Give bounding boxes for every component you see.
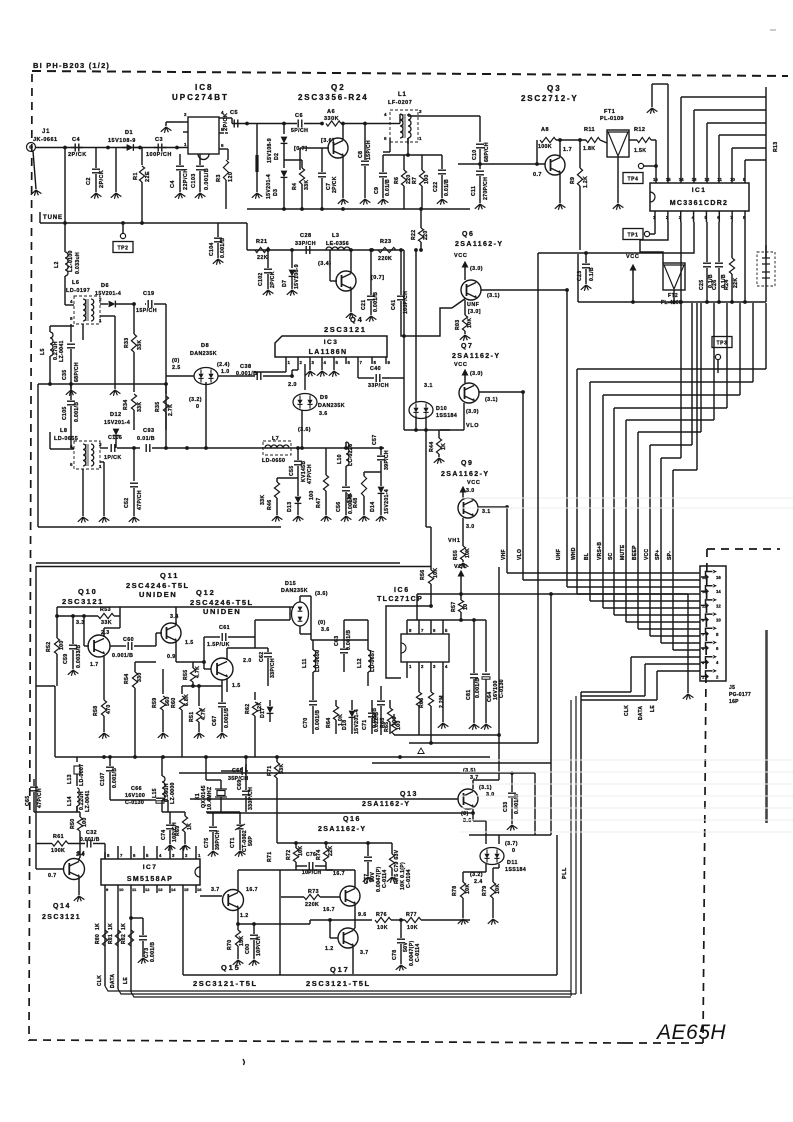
svg-text:C59: C59 [63, 654, 69, 664]
svg-text:2SC3121-T5L: 2SC3121-T5L [193, 979, 258, 988]
svg-text:D11: D11 [507, 860, 518, 866]
svg-text:[3.0]: [3.0] [468, 309, 481, 315]
svg-text:J1: J1 [42, 129, 50, 135]
wire Q16 output row [330, 919, 372, 921]
svg-text:R6: R6 [394, 177, 400, 184]
svg-text:(3.6): (3.6) [315, 591, 328, 597]
svg-text:D9: D9 [320, 395, 328, 401]
svg-text:R23: R23 [380, 239, 392, 245]
inductor L15 0.56uH [161, 757, 163, 776]
svg-text:C61: C61 [219, 625, 230, 631]
svg-text:R69: R69 [175, 826, 181, 836]
svg-text:D14: D14 [370, 502, 376, 512]
svg-text:4.7K: 4.7K [195, 666, 201, 678]
svg-text:Q6: Q6 [462, 231, 475, 238]
svg-text:R57: R57 [451, 602, 457, 612]
svg-text:33P/CH: 33P/CH [368, 383, 389, 389]
wire top corner ground [651, 84, 653, 107]
svg-text:TP3: TP3 [717, 340, 728, 346]
svg-text:220: 220 [423, 230, 429, 240]
wire IC6 box outline [386, 606, 431, 678]
svg-text:Q16: Q16 [343, 816, 361, 823]
svg-text:10P/CH: 10P/CH [302, 870, 321, 876]
svg-text:14: 14 [679, 177, 684, 182]
op-amp IC8 UPC274BT [188, 117, 219, 154]
svg-text:VLO: VLO [466, 423, 479, 429]
svg-text:0.7: 0.7 [48, 873, 57, 879]
capacitor C10 68P/CH [476, 143, 484, 145]
resistor R82 1K [128, 930, 133, 946]
svg-text:0.001/B: 0.001/B [80, 837, 100, 843]
svg-text:0.001/B: 0.001/B [373, 292, 379, 312]
svg-text:Q14: Q14 [53, 903, 71, 910]
svg-text:6.8K: 6.8K [184, 694, 190, 706]
resistor R62 12K [254, 692, 256, 700]
wire top L11 L12 [311, 639, 368, 641]
filter FT2 FL-4200 [663, 263, 685, 290]
svg-text:PLL: PLL [562, 867, 568, 879]
resistor R33 33K [133, 304, 135, 334]
svg-text:1.7: 1.7 [90, 662, 99, 668]
svg-text:15V108-9: 15V108-9 [267, 138, 273, 163]
svg-text:100: 100 [309, 490, 315, 500]
svg-text:Q7: Q7 [461, 343, 474, 350]
svg-text:330K: 330K [324, 116, 339, 122]
capacitor C81 0.001/B [473, 620, 475, 673]
svg-text:33K: 33K [101, 620, 112, 626]
svg-text:39P/CH: 39P/CH [215, 830, 221, 850]
svg-text:VRS+B: VRS+B [597, 542, 603, 560]
wire bus WHD [765, 303, 767, 369]
svg-text:10: 10 [716, 618, 721, 623]
resistor R50 100 [79, 812, 81, 817]
IC U3 IC3 LA1186N [275, 336, 387, 357]
wire IC1 pin15 top [667, 84, 669, 183]
svg-text:3.6: 3.6 [321, 627, 330, 633]
resistor R55 10K stub [462, 535, 464, 546]
svg-text:10K: 10K [465, 884, 471, 894]
resistor R9 1.2K [579, 140, 581, 168]
svg-text:BL: BL [584, 553, 590, 560]
capacitor C107 0.001/B [109, 757, 111, 766]
svg-text:0.001/B: 0.001/B [220, 238, 226, 258]
svg-text:2SA1162-Y: 2SA1162-Y [452, 353, 500, 360]
wire D10 verticals [415, 250, 417, 402]
svg-text:Q2: Q2 [331, 83, 346, 92]
svg-text:C5: C5 [230, 110, 238, 116]
svg-text:2.7K: 2.7K [168, 404, 174, 416]
svg-text:C57: C57 [372, 435, 378, 445]
wire L1 secondary row [383, 154, 442, 156]
wire Q3 base [458, 163, 545, 165]
svg-text:3.6: 3.6 [463, 818, 472, 824]
svg-text:JK-0661: JK-0661 [33, 137, 58, 143]
svg-text:1.5P/UK: 1.5P/UK [207, 642, 230, 648]
ground IC3 pin3 [309, 364, 311, 370]
svg-text:LA1186N: LA1186N [309, 349, 348, 356]
svg-text:C55: C55 [289, 466, 295, 476]
wire Q12 base node [175, 655, 177, 662]
svg-text:0.033uH: 0.033uH [75, 252, 81, 274]
svg-text:(3.0): (3.0) [466, 409, 479, 415]
resistor R65b 100 [393, 714, 395, 720]
svg-text:IC8: IC8 [195, 83, 213, 92]
resistor R6 220 [403, 155, 405, 170]
capacitor C3 [157, 144, 159, 152]
resistor R3 120 [225, 132, 228, 134]
dual diode D9 DAN235K [304, 364, 306, 390]
marker triangle [418, 748, 424, 754]
svg-text:1K: 1K [187, 823, 193, 830]
diode D18 15V201-4 [351, 700, 353, 710]
capacitor C105 0.001/B [70, 395, 72, 400]
svg-text:IC6: IC6 [394, 587, 410, 594]
svg-text:1K: 1K [121, 923, 127, 930]
svg-text:2SA1162-Y: 2SA1162-Y [455, 241, 503, 248]
wire bus VRS+B [739, 303, 741, 395]
capacitor C35 68P/CH [70, 324, 72, 342]
capacitor C103 0.001/B [199, 154, 201, 165]
svg-text:LZ-0100: LZ-0100 [68, 250, 74, 272]
wire D10 to IC6 [425, 430, 427, 527]
svg-text:LZ-0041: LZ-0041 [59, 340, 65, 362]
svg-text:2P/CK: 2P/CK [332, 176, 338, 193]
svg-text:470: 470 [106, 704, 112, 714]
svg-text:FT2: FT2 [668, 293, 678, 299]
svg-text:LD-0650: LD-0650 [262, 458, 285, 464]
svg-text:10: 10 [463, 604, 469, 610]
IC U6 IC6 TLC271CP [401, 634, 449, 662]
wire L1 input [390, 123, 400, 125]
svg-text:330: 330 [137, 672, 143, 682]
svg-text:0.7: 0.7 [533, 172, 542, 178]
svg-text:(0): (0) [172, 358, 180, 364]
scan streaks [460, 497, 793, 499]
svg-text:15: 15 [184, 887, 189, 892]
wire IC8 pin7 ground [166, 121, 183, 123]
testpoint TP3 [712, 337, 732, 348]
svg-text:13: 13 [702, 589, 707, 594]
svg-text:3.1: 3.1 [482, 509, 491, 515]
svg-text:D10: D10 [436, 406, 447, 412]
stray mark bottom center [243, 1059, 245, 1065]
capacitor C67 0.001/B [221, 680, 223, 702]
wire nested row1 [409, 742, 538, 744]
svg-text:R3: R3 [216, 174, 222, 182]
svg-text:16.7: 16.7 [323, 907, 335, 913]
resonator X2 [757, 252, 775, 286]
wire CLK to J5 [581, 691, 631, 693]
svg-text:270P/CH: 270P/CH [483, 177, 489, 200]
svg-text:220K: 220K [378, 256, 392, 262]
diode D1 15V108-9 [122, 147, 127, 149]
trimmer CT1 CT-0002 [239, 812, 241, 824]
wire C32 to IC7 pin8 [104, 844, 106, 859]
capacitor C69 330P/CH [245, 764, 247, 790]
svg-text:22K: 22K [328, 846, 334, 856]
svg-text:D17: D17 [260, 708, 266, 718]
svg-text:TP2: TP2 [118, 245, 129, 251]
svg-text:SC: SC [608, 552, 614, 560]
svg-text:BI PH-B203 (1/2): BI PH-B203 (1/2) [33, 61, 110, 70]
diode D14 15V201-4 [378, 487, 385, 494]
svg-text:PG-0177: PG-0177 [729, 692, 751, 698]
transistor Q7 2SA1162 [459, 383, 479, 403]
svg-text:1.7: 1.7 [563, 147, 572, 153]
capacitor C11 270P/CH [479, 164, 481, 169]
wire IC8 pin6 feedback [224, 148, 228, 150]
wire Q12 collector [254, 637, 256, 648]
svg-text:CLK: CLK [97, 975, 103, 986]
wire bus UHF [566, 290, 568, 587]
svg-text:(3.2): (3.2) [470, 872, 483, 878]
svg-text:0.01/B: 0.01/B [137, 436, 155, 442]
svg-text:L14: L14 [67, 796, 73, 806]
wire mid rail [38, 383, 134, 385]
svg-text:C105: C105 [62, 406, 68, 420]
resistor R58 470 [103, 668, 105, 700]
inductor L13 LD-0007 [76, 757, 78, 762]
svg-text:12: 12 [704, 177, 709, 182]
svg-text:R80: R80 [95, 934, 101, 944]
border right dashed [703, 549, 707, 1043]
resistor R57 10 [460, 594, 462, 600]
wire IC1 pin9 top [744, 160, 746, 183]
svg-text:SM5158AP: SM5158AP [127, 876, 173, 883]
svg-text:L3: L3 [332, 233, 339, 239]
wire IC6 bottom pins [406, 662, 408, 670]
capacitor C26 0.1/B [718, 222, 720, 262]
svg-text:15: 15 [666, 177, 671, 182]
capacitor C65 47P/CH [33, 779, 35, 786]
capacitor C4 [74, 144, 76, 152]
svg-text:2.0: 2.0 [288, 382, 297, 388]
svg-text:VH1: VH1 [448, 538, 461, 544]
resistor R70 15K [237, 924, 239, 930]
svg-text:C6: C6 [295, 113, 303, 119]
svg-text:Q13: Q13 [400, 791, 418, 798]
svg-text:IC1: IC1 [692, 187, 707, 194]
testpoint TP2 [120, 233, 125, 238]
svg-text:0.0033/B: 0.0033/B [76, 645, 82, 668]
svg-text:LE: LE [650, 705, 656, 712]
wire IC6 pin4 ground [442, 670, 444, 722]
wire Q16 top rail [277, 842, 392, 844]
wire long vertical x538 [537, 253, 539, 743]
wire lower box top [36, 566, 431, 568]
wire C19-C93 vertical [165, 371, 167, 448]
resistor R60 6.8K [181, 686, 183, 694]
wire IC8 output [224, 117, 232, 119]
border left dashed [29, 74, 32, 1041]
svg-text:14: 14 [171, 887, 176, 892]
svg-text:10K: 10K [465, 548, 471, 558]
wire L14 R50 node [34, 811, 80, 813]
svg-text:L10: L10 [337, 454, 343, 464]
svg-text:C22: C22 [433, 182, 439, 192]
resistor R22 220 [418, 228, 423, 242]
svg-text:2.5: 2.5 [172, 365, 181, 371]
svg-text:C66: C66 [131, 786, 142, 792]
wire R12 to IC1 pin16 [655, 140, 657, 183]
svg-text:C32: C32 [86, 830, 97, 836]
resistor R67 2.2M [430, 670, 432, 692]
svg-text:2P/CK: 2P/CK [270, 271, 276, 288]
svg-text:C56: C56 [336, 502, 342, 512]
svg-text:10P/CH: 10P/CH [256, 936, 262, 956]
capacitor C22 0.01/B [441, 155, 443, 169]
svg-text:R35: R35 [155, 402, 161, 412]
wire IC3 pins [285, 357, 287, 364]
svg-text:C106: C106 [108, 435, 122, 441]
wire D8 center down [205, 382, 207, 448]
svg-text:10.4MHZ: 10.4MHZ [207, 786, 213, 810]
svg-text:(3.6): (3.6) [298, 427, 311, 433]
wire bus SP+ [680, 303, 682, 458]
svg-text:16: 16 [653, 177, 658, 182]
svg-text:C4: C4 [170, 180, 176, 188]
svg-text:0.001/B: 0.001/B [315, 710, 321, 730]
svg-text:0: 0 [196, 404, 199, 410]
capacitor C55 KV145B [297, 448, 299, 460]
resistor R03 10K [464, 300, 466, 315]
svg-text:50P: 50P [248, 836, 254, 846]
svg-text:220K: 220K [305, 902, 319, 908]
svg-text:UNIDEN: UNIDEN [139, 590, 177, 599]
wire bus SP- [696, 303, 698, 470]
svg-text:0.9: 0.9 [167, 654, 176, 660]
wire IC6 output long [417, 593, 688, 595]
svg-text:FT1: FT1 [604, 109, 615, 115]
svg-text:D1: D1 [125, 130, 133, 136]
svg-text:R55: R55 [453, 550, 459, 560]
svg-text:120: 120 [228, 172, 234, 182]
wire IC1 pin10 top [731, 148, 733, 183]
wire Q15 row [200, 895, 222, 897]
wire IC6 output down [550, 594, 552, 763]
svg-text:10K: 10K [433, 568, 439, 578]
svg-text:10: 10 [119, 887, 124, 892]
svg-text:15V108-9: 15V108-9 [294, 264, 300, 289]
wire DATA to J5 [644, 664, 646, 696]
svg-text:PL-0109: PL-0109 [600, 116, 624, 122]
capacitor C5 2P/CK [233, 120, 235, 128]
svg-text:68P/CH: 68P/CH [484, 142, 490, 162]
connector J1 JK-0661 [27, 143, 36, 152]
svg-text:R79: R79 [482, 886, 488, 896]
svg-text:D18: D18 [342, 720, 348, 730]
wire Q13 node [498, 735, 500, 780]
svg-text:L12: L12 [357, 658, 363, 668]
svg-text:10K: 10K [407, 925, 418, 931]
svg-text:Q11: Q11 [160, 571, 179, 580]
capacitor C33 0.001/B [511, 773, 513, 792]
svg-text:C63: C63 [334, 636, 340, 646]
svg-text:22K: 22K [257, 255, 268, 261]
capacitor C68 symbol [241, 767, 243, 775]
svg-text:L6: L6 [72, 280, 79, 286]
wire L1 output [407, 114, 409, 116]
svg-text:R22: R22 [411, 230, 417, 240]
svg-text:C19: C19 [143, 291, 155, 297]
inductor L5 0.27uH [49, 326, 51, 332]
wire IC1 pin4 left [538, 222, 694, 253]
svg-text:WHD: WHD [571, 547, 577, 560]
svg-text:2P/CK: 2P/CK [223, 113, 229, 131]
resistor R74 22K [325, 843, 327, 848]
svg-text:1.0: 1.0 [221, 369, 230, 375]
svg-text:C81: C81 [466, 690, 472, 700]
svg-text:2SC3121: 2SC3121 [42, 914, 81, 921]
svg-text:(3.0): (3.0) [470, 371, 483, 377]
svg-text:C8: C8 [358, 151, 364, 158]
svg-text:3.4: 3.4 [77, 851, 85, 857]
border bottom dashed [29, 1040, 625, 1043]
wire bus VLO [522, 392, 524, 580]
svg-text:R50: R50 [70, 819, 76, 829]
svg-text:3.0: 3.0 [466, 524, 475, 530]
resistor R46 33K [277, 477, 298, 479]
wire bus MUTE [713, 303, 715, 420]
wire DATA column [117, 893, 119, 989]
svg-text:IC7: IC7 [143, 864, 158, 871]
wire bottom rail upper box [38, 526, 281, 528]
svg-text:15P/CH: 15P/CH [136, 308, 157, 314]
svg-text:0.01/B: 0.01/B [385, 179, 391, 196]
wire IC3 pin1 down [285, 364, 287, 372]
wire LE to J5 [656, 671, 658, 700]
svg-text:2P/CK: 2P/CK [68, 152, 87, 158]
capacitor C25 0.1/B [706, 222, 708, 262]
svg-text:A8: A8 [541, 127, 549, 133]
svg-text:10K: 10K [377, 925, 388, 931]
svg-text:100: 100 [82, 817, 88, 827]
wire Q10 bias [56, 607, 58, 616]
svg-text:R9: R9 [570, 177, 576, 184]
wire T1 primary [64, 290, 66, 305]
svg-text:1.2K: 1.2K [583, 176, 589, 188]
svg-text:C62: C62 [259, 652, 265, 662]
transistor Q10 2SC3121 [88, 635, 110, 657]
capacitor C75 39P/CH [212, 812, 214, 826]
wire IC3 pin2 down [297, 364, 299, 370]
svg-text:1K: 1K [108, 923, 114, 930]
svg-text:L5: L5 [40, 348, 46, 355]
svg-text:TP4: TP4 [628, 176, 639, 182]
svg-text:33P/CH: 33P/CH [270, 658, 276, 678]
svg-text:5P/CH: 5P/CH [291, 128, 308, 134]
resistor R11 1.8K [586, 137, 600, 142]
wire IC1 pin14 top [680, 97, 682, 183]
svg-text:0.001/B: 0.001/B [204, 168, 210, 190]
svg-text:33K: 33K [260, 495, 266, 505]
resistor R21 22K [255, 247, 270, 252]
transistor Q17 2SC3121 [338, 928, 358, 948]
svg-text:13: 13 [692, 177, 697, 182]
capacitor C9 0.01/B [382, 155, 384, 172]
wire IC6 top pins [406, 626, 408, 634]
resistor R81 1K [115, 930, 120, 946]
svg-text:13: 13 [158, 887, 163, 892]
svg-text:L13: L13 [67, 774, 73, 784]
svg-text:(3.2): (3.2) [189, 397, 202, 403]
wire IC6 pin8 wiring [406, 620, 408, 626]
svg-text:R03: R03 [455, 320, 461, 330]
border top dashed [32, 71, 788, 76]
svg-text:R65: R65 [384, 722, 390, 732]
svg-text:16: 16 [197, 887, 202, 892]
wire xtal row [185, 756, 490, 758]
